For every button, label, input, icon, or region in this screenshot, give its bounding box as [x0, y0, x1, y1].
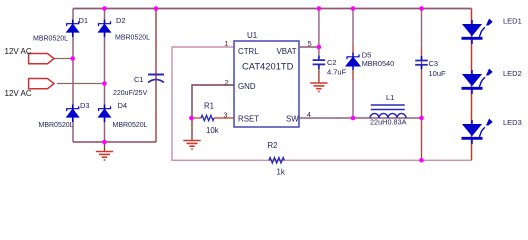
- svg-text:10uF: 10uF: [429, 69, 447, 78]
- svg-text:RSET: RSET: [238, 115, 259, 124]
- svg-text:12V AC: 12V AC: [5, 47, 32, 56]
- svg-text:D3: D3: [80, 101, 90, 110]
- LED LED3: [462, 119, 493, 144]
- svg-text:MBR0520L: MBR0520L: [115, 35, 150, 42]
- svg-text:LED1: LED1: [503, 17, 522, 26]
- wire AC input 2 stub: [57, 83, 105, 85]
- svg-text:12V AC: 12V AC: [5, 89, 32, 98]
- resistor R1: [201, 115, 214, 120]
- inductor L1: [370, 105, 406, 118]
- wire C1 column: [155, 9, 157, 143]
- wire AC input 1 stub: [54, 58, 73, 60]
- wire SW pin4 to L1 and C3: [299, 117, 422, 119]
- junction dot bottom rail C3 node: [419, 158, 424, 163]
- wire D1/D3 column: [72, 9, 74, 143]
- wire D2/D4 column: [104, 9, 106, 143]
- junction dot top rail D2: [102, 6, 107, 11]
- svg-text:4: 4: [307, 110, 311, 119]
- svg-text:LED3: LED3: [503, 118, 522, 127]
- diode D2: [99, 20, 111, 38]
- svg-text:SW: SW: [286, 115, 299, 124]
- wire R1 ground stem: [191, 118, 193, 141]
- capacitor C1: [148, 75, 164, 83]
- capacitor C2: [313, 56, 326, 69]
- svg-text:D4: D4: [118, 101, 128, 110]
- junction dot AC2 node: [102, 81, 107, 86]
- diode D5: [346, 53, 360, 71]
- junction dot L1/C3 node: [419, 116, 424, 121]
- diode D4: [99, 105, 111, 123]
- ground (bridge): [96, 142, 113, 160]
- wire bridge bottom rail: [73, 141, 156, 143]
- wire CTRL pin1 net (left and down and bottom rail): [172, 47, 472, 160]
- svg-text:MBR0520L: MBR0520L: [113, 122, 148, 129]
- ground (C2): [310, 83, 327, 92]
- svg-text:D5: D5: [362, 50, 372, 59]
- junction dot R1 left node: [189, 116, 194, 121]
- junction dot VBAT/C2 node: [317, 45, 322, 50]
- LED LED1: [462, 19, 493, 44]
- svg-text:4.7uF: 4.7uF: [327, 68, 347, 77]
- junction dot bridge ground node: [102, 140, 107, 145]
- svg-text:5: 5: [308, 39, 312, 48]
- junction dot SW/D5 node: [351, 116, 356, 121]
- svg-text:MBR0540: MBR0540: [362, 59, 394, 68]
- wire R1 left lead: [191, 117, 201, 119]
- svg-text:MBR0520L: MBR0520L: [39, 122, 74, 129]
- svg-text:10k: 10k: [206, 126, 219, 135]
- diode D1: [67, 20, 79, 38]
- svg-text:C2: C2: [327, 58, 337, 67]
- wire top rail: [73, 8, 472, 10]
- wire C2 column: [318, 9, 320, 57]
- svg-text:1k: 1k: [277, 168, 285, 177]
- connector J1 12V AC: [29, 54, 54, 64]
- svg-text:LED2: LED2: [503, 69, 522, 78]
- svg-text:GND: GND: [238, 82, 256, 91]
- svg-text:CAT4201TD: CAT4201TD: [242, 61, 294, 72]
- junction dot top rail C3: [419, 6, 424, 11]
- LED LED2: [462, 69, 493, 94]
- svg-text:VBAT: VBAT: [277, 47, 297, 56]
- diode D3: [67, 105, 79, 123]
- junction dot top rail C2/VBAT: [317, 6, 322, 11]
- svg-text:CTRL: CTRL: [238, 47, 259, 56]
- capacitor C3: [415, 56, 428, 69]
- wire LED column: [471, 9, 473, 161]
- wire GND pin2 net: [192, 85, 234, 118]
- svg-text:L1: L1: [386, 93, 394, 102]
- svg-text:D1: D1: [79, 16, 89, 25]
- junction dot top rail C1: [154, 6, 159, 11]
- junction dot top rail D5: [351, 6, 356, 11]
- svg-text:C1: C1: [134, 75, 144, 84]
- wire VBAT pin5 stub: [299, 46, 319, 48]
- svg-text:2: 2: [225, 78, 229, 87]
- svg-text:220uF/25V: 220uF/25V: [113, 90, 148, 97]
- wire C3 column: [421, 9, 423, 48]
- resistor R2: [269, 158, 284, 163]
- IC U1 CAT4201TD: [234, 41, 299, 127]
- connector J2 12V AC: [29, 79, 54, 89]
- svg-text:D2: D2: [116, 16, 126, 25]
- svg-text:1: 1: [224, 39, 228, 48]
- junction dot AC1 node: [70, 56, 75, 61]
- wire D5 column: [352, 9, 354, 47]
- ground (R1 / pin2): [183, 141, 200, 150]
- svg-text:3: 3: [223, 111, 227, 120]
- svg-text:U1: U1: [247, 31, 258, 40]
- wire R1 right lead to RSET pin3: [214, 117, 234, 119]
- svg-text:MBR0520L: MBR0520L: [33, 36, 68, 43]
- svg-text:C3: C3: [429, 59, 439, 68]
- svg-text:R2: R2: [268, 141, 278, 150]
- svg-text:R1: R1: [204, 102, 214, 111]
- svg-text:22uH0.83A: 22uH0.83A: [370, 118, 407, 127]
